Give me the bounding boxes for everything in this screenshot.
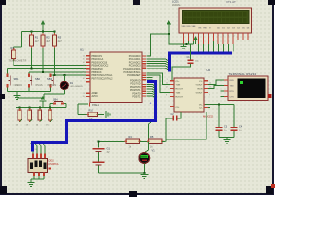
capacitor C2 (166, 112, 181, 141)
svg-text:7: 7 (218, 36, 220, 38)
svg-text:XTAL1: XTAL1 (92, 104, 100, 107)
svg-text:12: 12 (166, 87, 169, 89)
svg-text:C2-: C2- (199, 108, 203, 110)
ground buttons (14, 93, 21, 100)
node LED-row4 (63, 74, 65, 76)
button SB1 (7, 69, 23, 92)
wire LCD power rail (184, 41, 194, 44)
node lcd vdd (186, 43, 188, 45)
node R3-row4 (54, 74, 56, 76)
ground R11 (102, 111, 110, 118)
LCD HG1 (172, 0, 252, 44)
svg-text:10u: 10u (195, 61, 199, 63)
ground rail (40, 97, 47, 108)
ground keypad (28, 183, 35, 187)
svg-text:KNOPKA: KNOPKA (49, 163, 59, 166)
resistor R5 (16, 108, 22, 127)
svg-text:R1IN: R1IN (198, 89, 203, 91)
wire T1OUT to RXD (208, 80, 224, 85)
node battery-R9wire (98, 140, 100, 142)
svg-text:RTS: RTS (230, 91, 235, 93)
svg-text:R5: R5 (150, 135, 154, 139)
ground meter (140, 173, 148, 179)
svg-text:4k7: 4k7 (35, 40, 40, 43)
wire U1 to main bus rows (147, 84, 155, 97)
wire U1 TXD to MAX232 (147, 73, 171, 85)
node R9-R10 (148, 140, 150, 142)
wire bus entries resistors (20, 120, 53, 122)
wire U1 stub rows (147, 77, 153, 79)
resistor R1 (30, 32, 40, 69)
svg-text:SB4: SB4 (53, 99, 58, 102)
svg-text:U2: U2 (207, 68, 211, 72)
svg-text:=MENU: =MENU (14, 84, 23, 87)
ground caps (224, 140, 231, 144)
resistor R11 reset (78, 104, 104, 121)
svg-text:=MINUS: =MINUS (47, 84, 57, 87)
svg-text:TERMOMETR: TERMOMETR (9, 60, 27, 63)
svg-text:C2: C2 (171, 113, 175, 116)
wire bus entry to R9 node (149, 122, 152, 141)
svg-text:15: 15 (83, 59, 86, 61)
svg-text:1u: 1u (224, 130, 227, 132)
wire max232 vsminus (205, 105, 234, 108)
wire U1 to LCD-bus rows (147, 59, 169, 70)
node R2-row3 (42, 71, 44, 73)
switch DD1 DIP (28, 154, 59, 177)
svg-text:6: 6 (208, 36, 210, 38)
svg-text:1u: 1u (239, 130, 242, 132)
svg-text:14: 14 (83, 55, 86, 57)
svg-text:7: 7 (209, 95, 211, 97)
svg-text:4k7: 4k7 (46, 40, 51, 43)
node c3 top (218, 104, 220, 106)
node meter-bottom (143, 172, 145, 174)
svg-text:T1IN: T1IN (176, 85, 181, 87)
LED D1 (60, 75, 83, 94)
svg-text:PD5/T1: PD5/T1 (132, 96, 141, 99)
svg-text:R3: R3 (58, 36, 62, 40)
svg-text:T2OUT: T2OUT (195, 93, 203, 95)
svg-text:MAX232: MAX232 (203, 115, 214, 119)
svg-text:12: 12 (16, 125, 19, 127)
svg-text:9: 9 (228, 36, 230, 38)
wire row2 (8, 68, 91, 70)
resistor R4 thermo pull-up (9, 46, 27, 65)
wire LED bottom (17, 94, 64, 98)
svg-text:1: 1 (167, 79, 169, 81)
wire U1 RXD to MAX232 (147, 75, 171, 92)
button SB4 (50, 99, 66, 108)
svg-text:VEE: VEE (191, 26, 196, 28)
wire keypad to ground (31, 176, 44, 183)
capacitor C3 (216, 105, 228, 138)
svg-text:CTS: CTS (230, 97, 235, 99)
svg-text:R10: R10 (89, 109, 94, 112)
svg-text:R2OUT: R2OUT (176, 97, 184, 99)
svg-text:C1: C1 (187, 56, 191, 59)
terminal RS232 (224, 72, 272, 101)
svg-text:4k7: 4k7 (58, 40, 63, 43)
svg-text:TXD: TXD (230, 86, 235, 88)
wire power rail (14, 32, 55, 51)
wire R1IN to TXD (208, 86, 224, 89)
node rail-R2 (42, 31, 44, 33)
svg-text:RXD: RXD (230, 80, 235, 82)
svg-text:1k: 1k (150, 146, 153, 149)
power LCD VDD (194, 37, 197, 44)
svg-text:R1: R1 (35, 36, 39, 40)
svg-text:16: 16 (83, 62, 86, 64)
node vcc junction (168, 33, 170, 35)
node R1-row2 (31, 68, 33, 70)
wire meter bottom row (99, 172, 144, 174)
svg-text:1: 1 (183, 36, 185, 38)
svg-text:R1OUT: R1OUT (176, 89, 184, 91)
capacitor C4 (231, 105, 243, 138)
bus main (32, 82, 155, 152)
wire battery top (99, 141, 126, 147)
battery G1 (93, 147, 111, 173)
svg-text:21: 21 (83, 93, 86, 95)
wire max232 c2minus down (166, 112, 206, 139)
wire resistor-row rail (16, 107, 66, 109)
svg-text:10: 10 (83, 78, 86, 80)
svg-text:LED-GREEN: LED-GREEN (70, 86, 83, 88)
svg-text:3: 3 (193, 36, 195, 38)
button SB3 (47, 74, 57, 92)
svg-text:9: 9 (166, 95, 168, 97)
svg-text:R2: R2 (46, 36, 50, 40)
svg-text:15: 15 (46, 125, 49, 127)
node rail-R3 (54, 31, 56, 33)
svg-text:8: 8 (223, 36, 225, 38)
svg-text:RW: RW (203, 28, 206, 30)
svg-text:2: 2 (188, 36, 190, 38)
MCU U1 (80, 48, 151, 107)
wire caps ground row (219, 137, 234, 139)
wire keypad drops (31, 144, 46, 154)
resistor R3 (53, 32, 63, 76)
resistor R9 (124, 135, 148, 149)
svg-text:AVCC: AVCC (92, 95, 99, 98)
svg-text:=PLUS: =PLUS (35, 84, 43, 87)
node rail-r6 (29, 107, 31, 109)
meter V1 (139, 141, 155, 173)
capacitor C1 (172, 44, 199, 81)
resistor R10 (147, 135, 166, 149)
svg-text:VT1 AT: VT1 AT (226, 0, 236, 4)
svg-text:C1-: C1- (199, 81, 203, 83)
MAX232 U2 (166, 68, 214, 119)
svg-text:PB7/TOSC2/XTAL2: PB7/TOSC2/XTAL2 (92, 77, 114, 80)
svg-text:T2IN: T2IN (176, 93, 181, 95)
resistor R2 (41, 32, 51, 72)
svg-text:R4: R4 (11, 46, 15, 50)
wire row3 (29, 71, 90, 73)
svg-text:13: 13 (26, 125, 29, 127)
node rail-R1 (31, 31, 33, 33)
svg-text:5: 5 (203, 36, 205, 38)
svg-text:SB1: SB1 (14, 77, 19, 81)
svg-text:4: 4 (198, 36, 200, 38)
node rail-r7 (39, 107, 41, 109)
svg-text:U1: U1 (80, 48, 84, 52)
svg-text:1k: 1k (129, 146, 132, 149)
svg-text:R4: R4 (129, 135, 133, 139)
node rail-r5 (19, 107, 21, 109)
ground LCD VSS (181, 44, 187, 48)
svg-text:D1: D1 (70, 81, 74, 85)
power VCC U1 (147, 21, 171, 56)
svg-text:V1: V1 (152, 149, 156, 153)
resistor R7 (36, 108, 42, 127)
node rail-r8 (49, 107, 51, 109)
svg-text:+: + (150, 102, 152, 106)
svg-text:SB2: SB2 (35, 77, 40, 81)
svg-text:20: 20 (83, 96, 86, 98)
svg-text:3V: 3V (107, 151, 110, 154)
svg-text:C2+: C2+ (176, 107, 181, 109)
power VCC top-left (42, 21, 45, 31)
wire row1 sensor to U1 (14, 64, 90, 66)
svg-text:PC6/RESET: PC6/RESET (127, 74, 141, 77)
wire RTS stub (221, 91, 225, 97)
svg-text:VS-: VS- (199, 105, 203, 107)
svg-text:C1+: C1+ (176, 81, 181, 83)
svg-text:14: 14 (36, 125, 39, 127)
svg-text:SB3: SB3 (47, 77, 52, 81)
svg-text:DD2: DD2 (49, 159, 55, 163)
resistor R6 (26, 108, 32, 127)
svg-text:10: 10 (232, 36, 235, 38)
wire LCD pins to bus (199, 41, 234, 52)
svg-text:T1OUT: T1OUT (195, 85, 203, 87)
svg-text:C4: C4 (239, 126, 243, 129)
svg-text:C3: C3 (224, 126, 228, 129)
wire vcc to lcd rail (169, 34, 184, 44)
svg-text:LM016L: LM016L (172, 4, 181, 7)
resistor R8 (46, 108, 52, 127)
bus LCD (169, 53, 232, 72)
svg-text:VDD: VDD (186, 26, 191, 28)
svg-text:TERMINAL RS232: TERMINAL RS232 (229, 72, 257, 76)
button SB2 (28, 72, 43, 92)
wire row4 (51, 74, 91, 76)
svg-text:LCD1: LCD1 (172, 0, 179, 4)
wire buttons ground row (8, 92, 51, 94)
